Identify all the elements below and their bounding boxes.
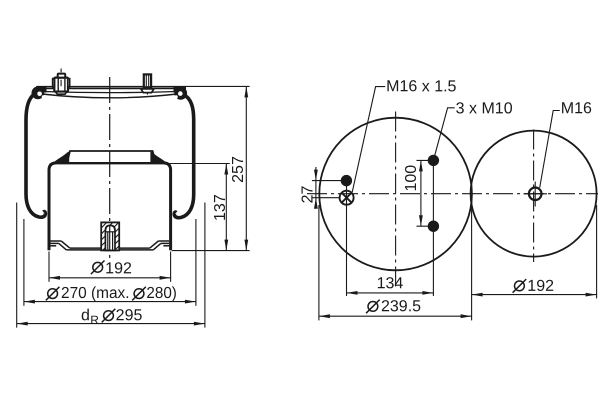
svg-text:100: 100 xyxy=(403,165,420,192)
arrowheads right view xyxy=(314,160,597,318)
centerline vertical big circle xyxy=(395,112,397,287)
bellows top surface arc xyxy=(42,94,177,98)
connector line through M10 dots down to 134 ext xyxy=(432,160,434,296)
svg-text:192: 192 xyxy=(105,260,132,277)
239.5 ext left xyxy=(318,205,320,320)
vertical extension lines for diameter dims xyxy=(48,252,50,282)
svg-text:192: 192 xyxy=(527,278,554,295)
leader M16 xyxy=(540,111,560,188)
stud fitting right xyxy=(141,74,154,94)
dimension line 137 vertical xyxy=(225,164,227,251)
dot M10 bottom xyxy=(428,221,439,232)
192 dim line right view xyxy=(472,294,597,296)
piston top trapezoid plate xyxy=(67,151,156,163)
extension line from top plate to 257 dim xyxy=(186,85,250,87)
bellows pinch left xyxy=(50,151,69,165)
dia symbol 192 left xyxy=(91,261,105,275)
bellows right outer wall and lobe xyxy=(174,95,193,218)
134 dim line xyxy=(347,292,434,294)
top plate second line xyxy=(37,87,184,89)
svg-text:d: d xyxy=(81,307,90,324)
left rolled curl xyxy=(32,86,47,99)
shared tangent ext line xyxy=(471,196,473,320)
central threaded boss xyxy=(101,222,119,250)
dia symbol 270 xyxy=(46,287,60,301)
100 dim refs xyxy=(417,159,434,161)
dia symbol 192 right xyxy=(513,279,527,293)
svg-text:134: 134 xyxy=(377,275,404,292)
connector line through dot and vent down to 134 ext xyxy=(346,181,348,296)
svg-text:M16: M16 xyxy=(561,100,592,117)
extension line piston top to 137 dim xyxy=(166,163,230,165)
27 dim refs xyxy=(312,180,341,182)
svg-text:257: 257 xyxy=(230,156,247,183)
big circle (bellows plan) xyxy=(319,118,472,271)
svg-text:M16 x 1.5: M16 x 1.5 xyxy=(386,78,456,95)
top plate top line xyxy=(37,86,187,88)
dimension line 270 xyxy=(24,301,196,303)
svg-text:270 (max.: 270 (max. xyxy=(61,285,130,302)
hole crosshair xyxy=(524,193,548,195)
svg-text:R: R xyxy=(90,313,99,327)
piston body xyxy=(49,163,171,250)
extension line piston bottom to vertical dims xyxy=(172,250,250,252)
boss threaded hole xyxy=(105,225,115,250)
192 ext right xyxy=(596,205,598,298)
dia symbol 239.5 xyxy=(366,300,380,314)
dimension line 192 xyxy=(49,277,171,279)
bellows left outer wall and lobe xyxy=(26,94,45,217)
centerline left view xyxy=(109,77,111,259)
dimension line 295 xyxy=(17,323,205,325)
boss hatching xyxy=(101,222,119,250)
center hole M16 xyxy=(529,188,542,201)
leader M16 x 1.5 xyxy=(352,87,385,193)
dot M10 top xyxy=(428,155,439,166)
right circle (piston plan) xyxy=(471,131,597,257)
27 dim line xyxy=(315,167,317,208)
svg-text:239.5: 239.5 xyxy=(381,298,421,315)
crossed circle vent xyxy=(340,191,354,205)
bellows pinch right xyxy=(150,151,169,165)
100 dim line xyxy=(420,160,422,226)
centerline vertical right circle xyxy=(533,130,535,263)
svg-text:295: 295 xyxy=(116,307,143,324)
dot M16x1.5 xyxy=(341,175,352,186)
piston bottom profile xyxy=(51,241,170,250)
diameter symbols xyxy=(46,261,526,323)
239.5 dim line xyxy=(319,315,472,317)
dia symbol 295 xyxy=(102,309,116,323)
dia symbol 280 xyxy=(132,287,146,301)
leader 3 x M10 xyxy=(435,108,455,155)
centerline horizontal right view xyxy=(307,193,598,195)
dimension line 257 vertical xyxy=(245,86,247,250)
svg-text:137: 137 xyxy=(212,194,229,221)
svg-text:27: 27 xyxy=(300,186,317,204)
arrowheads left view xyxy=(17,86,249,325)
top plate bottom line xyxy=(43,92,176,93)
svg-text:280): 280) xyxy=(146,285,177,302)
svg-text:3 x M10: 3 x M10 xyxy=(456,100,513,117)
right rolled curl xyxy=(174,86,188,99)
air valve fitting left xyxy=(53,69,70,97)
